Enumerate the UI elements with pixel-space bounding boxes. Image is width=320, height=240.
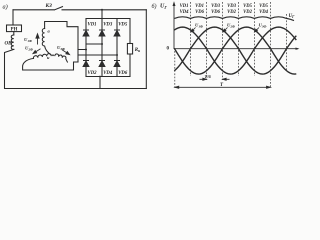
svg-text:VD6: VD6 <box>195 10 205 15</box>
svg-text:а): а) <box>3 4 8 11</box>
svg-text:VD3: VD3 <box>103 22 113 27</box>
svg-text:U1Ф: U1Ф <box>195 22 203 28</box>
svg-text:VD3: VD3 <box>211 4 221 9</box>
svg-text:VD5: VD5 <box>243 4 253 9</box>
svg-text:ОВ: ОВ <box>5 42 13 47</box>
svg-text:VD5: VD5 <box>259 4 269 9</box>
svg-text:VD1: VD1 <box>195 4 204 9</box>
svg-text:VD2: VD2 <box>243 10 253 15</box>
svg-text:VD1: VD1 <box>88 22 97 27</box>
svg-text:VD1: VD1 <box>180 4 189 9</box>
svg-text:U2Ф: U2Ф <box>227 22 235 28</box>
svg-text:T/6: T/6 <box>205 74 212 79</box>
svg-text:VD6: VD6 <box>118 71 128 76</box>
svg-text:н: н <box>47 55 50 60</box>
svg-text:VD3: VD3 <box>227 4 237 9</box>
svg-text:РН: РН <box>11 27 18 32</box>
svg-text:а: а <box>48 29 51 34</box>
svg-text:0: 0 <box>167 46 170 51</box>
svg-text:U2Ф: U2Ф <box>25 46 33 52</box>
svg-text:VD4: VD4 <box>180 10 190 15</box>
svg-text:U1Ф: U1Ф <box>24 37 32 43</box>
svg-text:Rн: Rн <box>135 48 140 53</box>
svg-text:VD2: VD2 <box>88 71 98 76</box>
svg-text:UГ: UГ <box>289 14 296 19</box>
svg-text:КЗ: КЗ <box>45 3 53 9</box>
svg-text:VD4: VD4 <box>103 71 113 76</box>
svg-text:VD5: VD5 <box>118 22 128 27</box>
svg-text:VD2: VD2 <box>227 10 237 15</box>
svg-text:VD4: VD4 <box>259 10 269 15</box>
svg-text:UГ: UГ <box>160 4 167 10</box>
svg-text:VD6: VD6 <box>211 10 221 15</box>
svg-text:U3Ф: U3Ф <box>57 45 65 51</box>
svg-text:U3Ф: U3Ф <box>259 22 267 28</box>
svg-text:б): б) <box>152 3 157 10</box>
